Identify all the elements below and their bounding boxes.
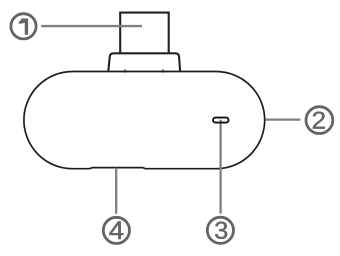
leader line callout 4: [115, 168, 117, 214]
tick mark right on body top edge: [162, 70, 164, 73]
plug boot base: [108, 53, 180, 71]
device body outline with bottom seam notch: [24, 72, 265, 169]
indicator window oval: [213, 118, 229, 123]
leader line callout 2: [265, 118, 300, 120]
leader line callout 1: [41, 25, 142, 27]
leader line callout 3: [219, 120, 221, 214]
callout circle 2: [306, 107, 333, 134]
tick mark left on body top edge: [124, 70, 126, 73]
callout circle 3: [207, 217, 233, 243]
digit 1: [19, 19, 28, 35]
digit 4: [109, 221, 123, 239]
callout circle 1: [11, 14, 36, 39]
callout circle 4: [103, 217, 129, 243]
digit 2: [313, 112, 325, 129]
digit 3: [215, 222, 227, 239]
usb plug rectangle: [120, 13, 169, 54]
